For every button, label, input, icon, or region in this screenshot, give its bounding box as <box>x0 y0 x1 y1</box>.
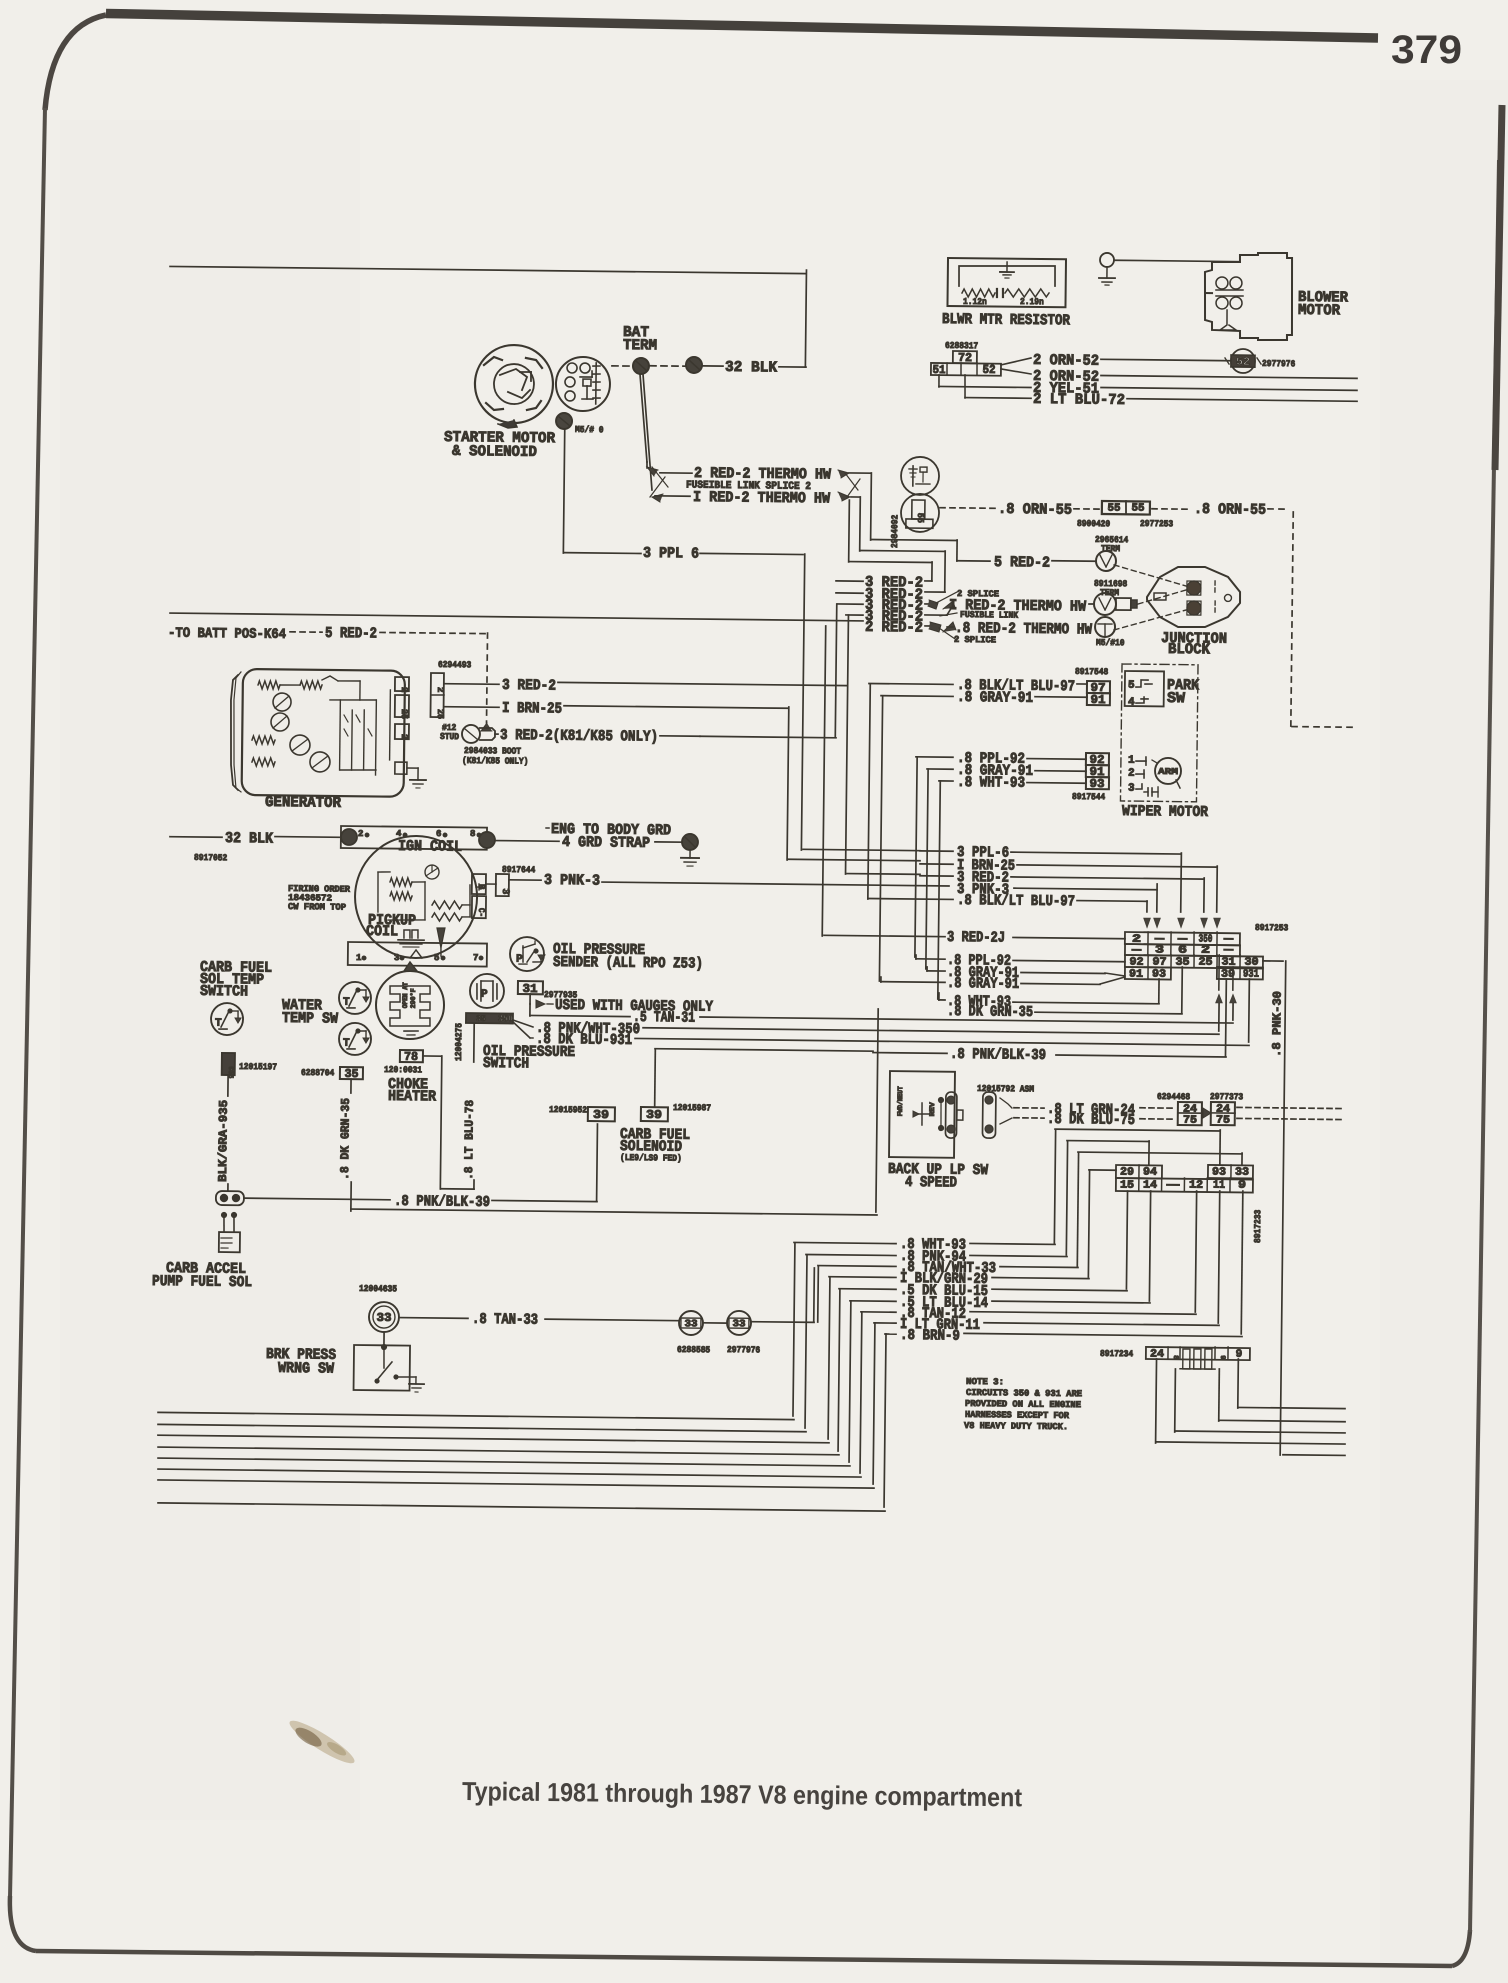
svg-text:TERM: TERM <box>1101 544 1120 554</box>
svg-text:6288585: 6288585 <box>677 1345 710 1355</box>
svg-text:P: P <box>481 989 488 1001</box>
svg-text:25: 25 <box>435 709 445 719</box>
wire TAN/WHT-33 over <box>1077 1151 1242 1268</box>
label GENERATOR <box>265 794 341 812</box>
wire TAN-33 riser <box>751 1267 815 1322</box>
svg-text:2 RED-2: 2 RED-2 <box>865 619 923 637</box>
svg-text:8900420: 8900420 <box>1077 519 1110 529</box>
label CARB FUEL SOL TEMP SWITCH <box>200 959 272 1001</box>
label .8 RED-2 THERMO HW <box>943 620 1092 639</box>
label #12 STUD <box>440 723 460 742</box>
svg-text:3 PNK-3: 3 PNK-3 <box>544 872 600 890</box>
svg-text:55: 55 <box>1131 503 1145 515</box>
part number 8917253 <box>1255 923 1288 933</box>
resistor element 1.12 ohm <box>962 289 997 308</box>
svg-text:(LE9/LS9 FED): (LE9/LS9 FED) <box>620 1153 682 1164</box>
svg-text:3: 3 <box>394 953 400 963</box>
svg-text:35: 35 <box>476 1015 486 1024</box>
svg-text:TERM: TERM <box>623 337 657 354</box>
svg-text:I BRN-25: I BRN-25 <box>502 700 562 718</box>
harness bracket TAN-12 <box>860 1312 862 1473</box>
svg-text:4 SPEED: 4 SPEED <box>905 1174 957 1192</box>
svg-text:3 RED-2J: 3 RED-2J <box>947 929 1005 947</box>
wire .8 BRN-9 row <box>885 1327 1242 1348</box>
generator <box>230 669 405 797</box>
stain <box>285 1715 358 1770</box>
wire .5 LT BLU-14 row <box>850 1293 1150 1313</box>
wire 3 RED-2 row right <box>920 869 1205 912</box>
terminal node 32 BLK <box>686 357 702 373</box>
arrow BLU-97 into connector <box>1143 918 1150 928</box>
wire 3 PNK-3 <box>509 872 1157 896</box>
svg-text:GENERATOR: GENERATOR <box>265 794 341 812</box>
arrow BRN-25 into connector <box>1213 918 1220 928</box>
wiper motor assembly outline <box>1120 664 1198 802</box>
svg-text:CIRCUITS 350 & 931 ARE: CIRCUITS 350 & 931 ARE <box>966 1388 1083 1399</box>
wire .8 GRAY-91 wiper <box>927 762 1086 781</box>
connector 3 pink <box>486 874 510 896</box>
svg-text:12: 12 <box>1189 1180 1203 1192</box>
svg-text:8: 8 <box>1171 1355 1179 1359</box>
svg-text:V8 HEAVY DUTY TRUCK.: V8 HEAVY DUTY TRUCK. <box>964 1421 1068 1432</box>
page border bottom-left curve <box>10 1896 36 1951</box>
svg-text:.5 TAN-31: .5 TAN-31 <box>633 1009 695 1027</box>
svg-text:2977976: 2977976 <box>1262 359 1295 369</box>
blower ground <box>1099 253 1115 285</box>
svg-text:I RED-2 THERMO HW: I RED-2 THERMO HW <box>693 489 830 508</box>
svg-text:.8 GRAY-91: .8 GRAY-91 <box>957 689 1033 707</box>
wire .8 PNK/BLK-39 right <box>950 1046 1226 1066</box>
wire 3 RED-2 row3 <box>838 597 931 615</box>
svg-text:BLK/GRA-935: BLK/GRA-935 <box>216 1100 231 1182</box>
svg-text:.8 DK BLU-931: .8 DK BLU-931 <box>536 1031 632 1049</box>
page border left <box>10 108 45 1898</box>
part number 8917052 <box>194 853 227 863</box>
connector 92 <box>1086 753 1109 767</box>
ground engine strap <box>681 834 699 866</box>
svg-text:STUD: STUD <box>440 732 460 742</box>
label BLWR MTR RESISTOR <box>942 311 1070 329</box>
svg-text:Typical 1981 through 1987 V8 e: Typical 1981 through 1987 V8 engine comp… <box>462 1776 1023 1812</box>
connector 39 right <box>641 1103 711 1123</box>
blower motor <box>1204 252 1293 340</box>
svg-text:935: 935 <box>226 1066 234 1078</box>
svg-text:3: 3 <box>499 888 510 894</box>
wire .8 BLK/LT BLU-97 <box>869 676 1087 695</box>
dashed wire .8 LT GRN-24 <box>1000 1098 1176 1119</box>
resistor inner bracket <box>959 265 1055 287</box>
terminal #12 stud boot <box>462 725 495 743</box>
generator tab 2 upper <box>395 677 409 692</box>
label 2984033 BOOT <box>462 746 529 767</box>
park switch contacts <box>1125 671 1164 709</box>
wire DK GRN-35 lower <box>351 1003 879 1215</box>
label FIRING ORDER <box>288 884 351 913</box>
brake warning terminal 33 <box>369 1302 399 1332</box>
svg-text:.8 BRN-9: .8 BRN-9 <box>900 1327 960 1345</box>
svg-text:SW: SW <box>1167 690 1185 707</box>
wire BLK/GRN-29 over <box>1088 1170 1116 1277</box>
svg-text:T: T <box>215 1018 222 1030</box>
svg-text:5: 5 <box>434 953 440 963</box>
svg-text:2: 2 <box>435 687 445 693</box>
svg-text:1: 1 <box>356 953 362 963</box>
harness long wire 8 <box>158 1503 885 1511</box>
dashed junction link 1 <box>1114 565 1186 586</box>
splice arrows left <box>647 467 669 502</box>
note 3 text <box>964 1377 1083 1432</box>
svg-text:12015952: 12015952 <box>549 1105 587 1115</box>
choke heater assembly <box>376 962 445 1040</box>
starter solenoid <box>556 357 611 412</box>
backup switch connector <box>945 1092 963 1138</box>
wire 4 GRD STRAP <box>495 833 683 852</box>
svg-text:REV: REV <box>929 1101 937 1116</box>
svg-text:—: — <box>1165 1180 1180 1192</box>
dashed ORN-55 corner down <box>1291 512 1355 728</box>
svg-text:2 LT BLU-72: 2 LT BLU-72 <box>1033 391 1125 409</box>
svg-text:MOTOR: MOTOR <box>1298 302 1340 319</box>
wire thermo A to zigzag <box>848 473 871 540</box>
svg-text:M5/# 0: M5/# 0 <box>575 425 604 435</box>
terminal M5/#0 <box>556 413 604 435</box>
svg-text:PUMP FUEL SOL: PUMP FUEL SOL <box>152 1273 252 1291</box>
connector 78 <box>400 1050 423 1064</box>
oil switch connector 350 <box>466 1013 513 1024</box>
wire .8 WHT-93 row <box>939 976 1159 1012</box>
svg-text:7: 7 <box>473 953 479 963</box>
harness bracket PNK-94 <box>805 1255 807 1428</box>
wire riser to 32 BLK terminal <box>805 270 806 367</box>
wire 3 PNK-3 row label <box>957 881 1009 899</box>
svg-text:290°F: 290°F <box>409 988 418 1008</box>
label 1 RED-2 THERMO HW mid <box>943 597 1093 616</box>
wire ground to blower <box>1114 260 1240 261</box>
svg-text:3: 3 <box>1128 783 1135 795</box>
svg-text:.8 LT BLU-78: .8 LT BLU-78 <box>462 1100 477 1180</box>
label OIL PRESSURE SWITCH <box>483 1043 575 1073</box>
water temp switch upper <box>339 982 371 1014</box>
label PICKUP COIL <box>366 912 416 941</box>
wire 1 BRN-25 from generator <box>444 699 788 720</box>
svg-text:NOTE 3:: NOTE 3: <box>966 1377 1004 1387</box>
label JUNCTION BLOCK <box>1161 630 1227 659</box>
part number 2984092 <box>890 515 900 548</box>
svg-text:.8 GRAY-91: .8 GRAY-91 <box>947 975 1019 993</box>
label CARB FUEL SOLENOID <box>620 1126 690 1164</box>
label 1 RED-2 THERMO HW <box>655 489 830 508</box>
wiper motor <box>1128 755 1182 798</box>
harness long wire 2 <box>158 1424 806 1431</box>
harness long wire 6 <box>158 1469 861 1477</box>
harness bracket WHT-93 <box>793 1243 795 1416</box>
svg-text:BLOCK: BLOCK <box>1168 641 1210 658</box>
connector 97 <box>1087 681 1110 695</box>
svg-text:5 RED-2: 5 RED-2 <box>994 554 1050 572</box>
distributor with ign coil <box>354 835 477 958</box>
dashed DK BLU-75 right <box>1237 1118 1345 1119</box>
label IGN COIL <box>398 838 462 856</box>
label ENG TO BODY GRD <box>546 821 671 839</box>
wire .8 WHT-93 <box>939 774 1086 793</box>
wire 3 RED-2J trunk <box>822 626 826 936</box>
wire 3 PPL 6 drop from solenoid <box>563 429 564 553</box>
svg-text:.8 DK GRN-35: .8 DK GRN-35 <box>947 1003 1033 1021</box>
svg-text:2: 2 <box>1128 768 1135 780</box>
wire 5 RED-2 <box>957 554 1096 573</box>
junction block <box>1147 566 1241 627</box>
svg-text:25: 25 <box>1198 957 1213 969</box>
svg-text:.8 PNK/BLK-39: .8 PNK/BLK-39 <box>394 1193 490 1211</box>
wire .8 PNK/WHT-350 <box>513 1020 1219 1045</box>
svg-text:29: 29 <box>1120 1167 1134 1179</box>
svg-text:52: 52 <box>982 363 995 377</box>
wire .8 DK BLU-931 <box>513 1022 1249 1056</box>
dashed LT GRN-24 right <box>1237 1107 1345 1108</box>
svg-text:32 BLK: 32 BLK <box>725 359 777 377</box>
backup mating connector <box>982 1092 996 1138</box>
wire .8 TAN/WHT-33 row <box>818 1258 1078 1278</box>
wire GRAY-91 wiper drop <box>926 769 928 969</box>
svg-text:78: 78 <box>404 1050 418 1064</box>
svg-text:9: 9 <box>1218 1355 1226 1359</box>
svg-text:C-: C- <box>476 908 486 917</box>
svg-text:8917234: 8917234 <box>1100 1349 1134 1359</box>
part number 2977935 <box>544 990 577 1000</box>
svg-text:1.12n: 1.12n <box>963 297 987 307</box>
svg-text:8917544: 8917544 <box>1072 792 1106 802</box>
svg-text:.8 RED-2 THERMO HW: .8 RED-2 THERMO HW <box>955 620 1092 639</box>
wire WHT-93 drop <box>938 781 940 999</box>
svg-text:2.19n: 2.19n <box>1020 297 1044 307</box>
page border right <box>1470 160 1499 1932</box>
part number 8917234 <box>1100 1349 1134 1359</box>
harness bracket BRN-9 <box>884 1334 886 1507</box>
svg-text:8917253: 8917253 <box>1255 923 1288 933</box>
wire carb fuel sol 39 up-over <box>654 1049 947 1111</box>
water temp switch lower <box>339 1023 371 1055</box>
wire 32 BLK distributor <box>170 829 340 848</box>
starter motor <box>474 345 553 429</box>
wire RED-2 row4 trunk <box>846 615 849 874</box>
wire PNK-94 over <box>1066 1140 1149 1256</box>
wire 8917234 out 1 <box>1238 1359 1346 1409</box>
svg-text:COIL: COIL <box>366 923 398 940</box>
label OIL PRESSURE SENDER <box>553 941 703 973</box>
dashed wire ORN-55 right <box>1152 508 1190 510</box>
harness long wire 1 <box>158 1412 794 1419</box>
splice dot row5 <box>929 622 997 645</box>
wire PPL-6 trunk corner <box>803 849 920 850</box>
connector 24-75 right <box>1211 1102 1235 1127</box>
label BLOWER MOTOR <box>1298 289 1348 320</box>
svg-text:.8 WHT-93: .8 WHT-93 <box>957 774 1025 792</box>
svg-text:TERM: TERM <box>1100 588 1119 598</box>
dashed wire .8 DK BLU-75 <box>1000 1110 1176 1129</box>
part number 6294493 <box>438 660 471 670</box>
wire .8 WHT-93 row <box>794 1235 1055 1255</box>
wire .8 GRAY-91 park <box>881 688 1087 707</box>
wire 3 RED-2 from generator <box>444 676 847 698</box>
arrow PPL-6 into connector <box>1177 918 1184 928</box>
label 2 RED-2 THERMO HW <box>660 465 831 484</box>
tran kick down sol lower <box>901 494 939 532</box>
wire K81 boot riser <box>700 602 838 737</box>
brake press warning switch <box>354 1332 425 1392</box>
svg-text:.8 PNK-30: .8 PNK-30 <box>1270 991 1285 1057</box>
wire RED-2 trunk corner <box>847 873 920 876</box>
label PARK SW <box>1167 677 1199 707</box>
svg-text:3 RED-2(K81/K85 ONLY): 3 RED-2(K81/K85 ONLY) <box>500 727 658 746</box>
svg-text:2: 2 <box>1201 945 1210 957</box>
connector 51-52 body <box>931 362 1001 377</box>
svg-text:12015987: 12015987 <box>673 1103 711 1113</box>
wire BAT TERM drop A <box>639 374 648 468</box>
svg-text:75: 75 <box>1183 1115 1198 1127</box>
generator tab 25 <box>395 695 409 719</box>
part number 8917544 <box>1072 792 1106 802</box>
harness long wire 7 <box>158 1480 874 1488</box>
svg-text:8917233: 8917233 <box>1253 1210 1263 1243</box>
wire DK BLU-15 drop <box>1126 1191 1127 1289</box>
wire .8 PNK-94 row <box>806 1247 1067 1267</box>
svg-text:931: 931 <box>1243 969 1259 981</box>
svg-text:BLWR MTR RESISTOR: BLWR MTR RESISTOR <box>942 311 1070 329</box>
arrow between connectors <box>1203 1108 1211 1118</box>
label BRK PRESS WRNG SW <box>266 1346 336 1378</box>
wire 8917234 out 3 <box>1175 1369 1346 1434</box>
svg-text:12015197: 12015197 <box>239 1062 277 1072</box>
connector 39 left <box>549 1105 615 1122</box>
scan edge artifact right <box>1495 105 1502 470</box>
wire 3 RED-2 row2 <box>836 586 945 604</box>
wire .8 GRAY-91 rowA <box>927 964 1125 983</box>
connector 55-55 <box>1102 501 1150 515</box>
svg-text:4 GRD STRAP: 4 GRD STRAP <box>562 834 650 852</box>
distributor terminal strip <box>348 942 487 967</box>
connector 24-75 left <box>1178 1102 1202 1127</box>
label CARB ACCEL PUMP FUEL SOL <box>152 1260 252 1291</box>
label .8 ORN-55 right <box>1194 501 1290 519</box>
oil pressure sender <box>510 937 545 971</box>
svg-text:5 RED-2: 5 RED-2 <box>325 625 377 643</box>
wire DK GRN-35 drop <box>338 1079 353 1211</box>
carb accel lug <box>216 1191 244 1205</box>
svg-text:8: 8 <box>470 829 476 839</box>
svg-text:.8 TAN-33: .8 TAN-33 <box>472 1311 538 1329</box>
connector 91 lower <box>1086 765 1109 779</box>
wire BRN-9 drop <box>1241 1191 1243 1334</box>
carb accel pump fuel sol <box>219 1212 240 1252</box>
part number 12015197 <box>239 1062 277 1072</box>
svg-text:33: 33 <box>376 1311 391 1325</box>
part number 6288317 <box>945 341 978 351</box>
part number 2977253 <box>1140 519 1173 529</box>
harness bracket TAN/WHT-33 stub <box>817 1266 820 1322</box>
connector 6294493 <box>430 673 445 719</box>
svg-text:15: 15 <box>1120 1180 1135 1192</box>
svg-text:8917052: 8917052 <box>194 853 227 863</box>
svg-text:2984092: 2984092 <box>890 515 900 548</box>
connector 93 <box>1086 777 1109 791</box>
resistor ground <box>1000 262 1014 278</box>
svg-text:33: 33 <box>732 1319 745 1330</box>
svg-text:2: 2 <box>399 734 409 740</box>
harness bracket BLK/GRN-29 <box>828 1277 830 1439</box>
wire .8 PNK-30 <box>1257 961 1350 1456</box>
svg-text:75: 75 <box>1216 1115 1231 1127</box>
harness long wire 4 <box>158 1447 839 1455</box>
wire DK BLU-931 entry <box>1248 979 1251 1042</box>
svg-text:32 BLK: 32 BLK <box>225 830 273 848</box>
back up lamp switch box <box>889 1071 955 1158</box>
connector 72 cell <box>953 351 977 365</box>
wire LT BLU-14 drop <box>1149 1191 1150 1301</box>
label CHOKE HEATER <box>388 1076 437 1106</box>
svg-text:33: 33 <box>1235 1167 1250 1179</box>
part number 12004635 <box>359 1284 397 1294</box>
wire BLU-97 left drop <box>868 684 870 899</box>
svg-text:SWITCH: SWITCH <box>200 983 248 1001</box>
svg-text:93: 93 <box>1212 1167 1227 1179</box>
connector 91 upper <box>1087 693 1110 707</box>
battery terminal node <box>633 358 649 374</box>
svg-text:WIPER MOTOR: WIPER MOTOR <box>1122 803 1208 821</box>
svg-text:9: 9 <box>1238 1180 1246 1192</box>
wire I LT GRN-11 row <box>874 1316 1219 1337</box>
wire 3 RED-2J <box>824 928 1125 948</box>
svg-text:6294468: 6294468 <box>1157 1092 1190 1102</box>
wire 3 RED-2 row1 <box>836 574 932 592</box>
label BACK UP LP SW 4 SPEED <box>888 1161 988 1192</box>
dashed junction link 3 <box>1114 609 1186 631</box>
part number 8917233 <box>1253 1210 1263 1243</box>
svg-text:2: 2 <box>399 687 409 693</box>
connector 35 <box>301 1066 363 1081</box>
svg-text:33: 33 <box>684 1319 697 1330</box>
splice arrows right <box>838 470 860 501</box>
svg-text:6294493: 6294493 <box>438 660 471 670</box>
svg-text:94: 94 <box>1143 1167 1158 1179</box>
svg-text:4: 4 <box>1128 697 1135 709</box>
svg-text:2977253: 2977253 <box>1140 519 1173 529</box>
wire .8 TAN-12 row <box>861 1305 1196 1326</box>
wire TAN-12 drop <box>1195 1191 1196 1312</box>
connector 935 <box>222 1053 235 1078</box>
label USED WITH GAUGES ONLY <box>530 994 713 1016</box>
wire from page-left to battery terminal riser <box>170 266 806 273</box>
zigzag step to 5 RED-2 <box>871 539 957 561</box>
wire .5 TAN-31 <box>530 1004 1233 1033</box>
part number 120:0031 <box>384 1065 423 1075</box>
wire 3 PPL 6 run <box>561 544 805 850</box>
terminal 52 to blower <box>1225 349 1296 374</box>
carb fuel sol temp switch <box>211 1003 243 1035</box>
svg-text:—: — <box>1223 945 1234 957</box>
svg-text:PROVIDED ON ALL ENGINE: PROVIDED ON ALL ENGINE <box>965 1399 1082 1410</box>
wire thermo B to zigzag <box>850 497 860 551</box>
connector 8917234 block <box>1146 1346 1250 1370</box>
svg-text:12004635: 12004635 <box>359 1284 397 1294</box>
page border bottom-right curve <box>1452 1930 1470 1966</box>
generator ground tab <box>395 762 426 788</box>
harness bracket DK BLU-15 <box>838 1289 840 1451</box>
svg-text:.8 PNK/BLK-39: .8 PNK/BLK-39 <box>950 1046 1046 1064</box>
terminal M5/#10 <box>1095 617 1125 648</box>
harness long wire 3 <box>158 1435 829 1443</box>
wire .8 PPL-92 row <box>916 952 1125 971</box>
dashed wire solenoid to BAT TERM <box>612 365 632 367</box>
